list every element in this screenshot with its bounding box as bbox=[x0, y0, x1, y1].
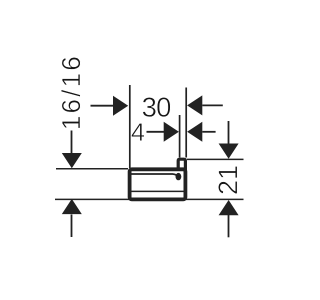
hook mounting tab bbox=[178, 159, 185, 170]
wire dimension tail 21 upper bbox=[228, 121, 230, 145]
arrowhead down toward tab top line (21) bbox=[219, 144, 239, 159]
wire dimension tail lower left bbox=[71, 215, 73, 238]
wire extension line tab left bbox=[179, 115, 181, 158]
wire dimension tail 4 left bbox=[147, 131, 166, 133]
wire dimension tail 16/16 horizontal bbox=[91, 105, 115, 107]
arrowhead right toward tab left (4) bbox=[164, 122, 179, 142]
wire dimension tail 30 right bbox=[202, 104, 223, 106]
wire dimension tail 4 right bbox=[202, 131, 215, 133]
arrowhead down toward top surface (16/16) bbox=[62, 153, 82, 168]
dimension label 16/16 bbox=[61, 57, 80, 128]
wire dimension tail 21 lower bbox=[228, 215, 230, 237]
arrowhead left toward tab right (4) bbox=[187, 122, 202, 142]
wire tab top line right of hook bbox=[187, 158, 244, 160]
wire bottom reference line bbox=[55, 198, 244, 200]
dimension label 30 bbox=[143, 97, 171, 117]
arrowhead left toward hook right edge (30) bbox=[187, 95, 202, 115]
arrowhead up toward bottom line left bbox=[62, 199, 82, 214]
wire dimension tail 16/16 vertical bbox=[71, 131, 73, 154]
arrowhead up toward bottom line right (21) bbox=[219, 200, 239, 215]
arrowhead right toward hook left edge (16/16) bbox=[113, 96, 128, 116]
wire extension line left edge of hook bbox=[129, 85, 131, 168]
dimension label 4 bbox=[132, 123, 145, 141]
hook lip tip blob bbox=[176, 173, 182, 180]
wire extension line tab right bbox=[185, 88, 187, 158]
hook body outline bbox=[130, 169, 186, 199]
hook inner lip line bbox=[131, 174, 178, 177]
wire top surface line left of hook bbox=[56, 168, 128, 170]
hook inner bottom line bbox=[131, 190, 185, 192]
dimension label 21 bbox=[218, 166, 237, 193]
